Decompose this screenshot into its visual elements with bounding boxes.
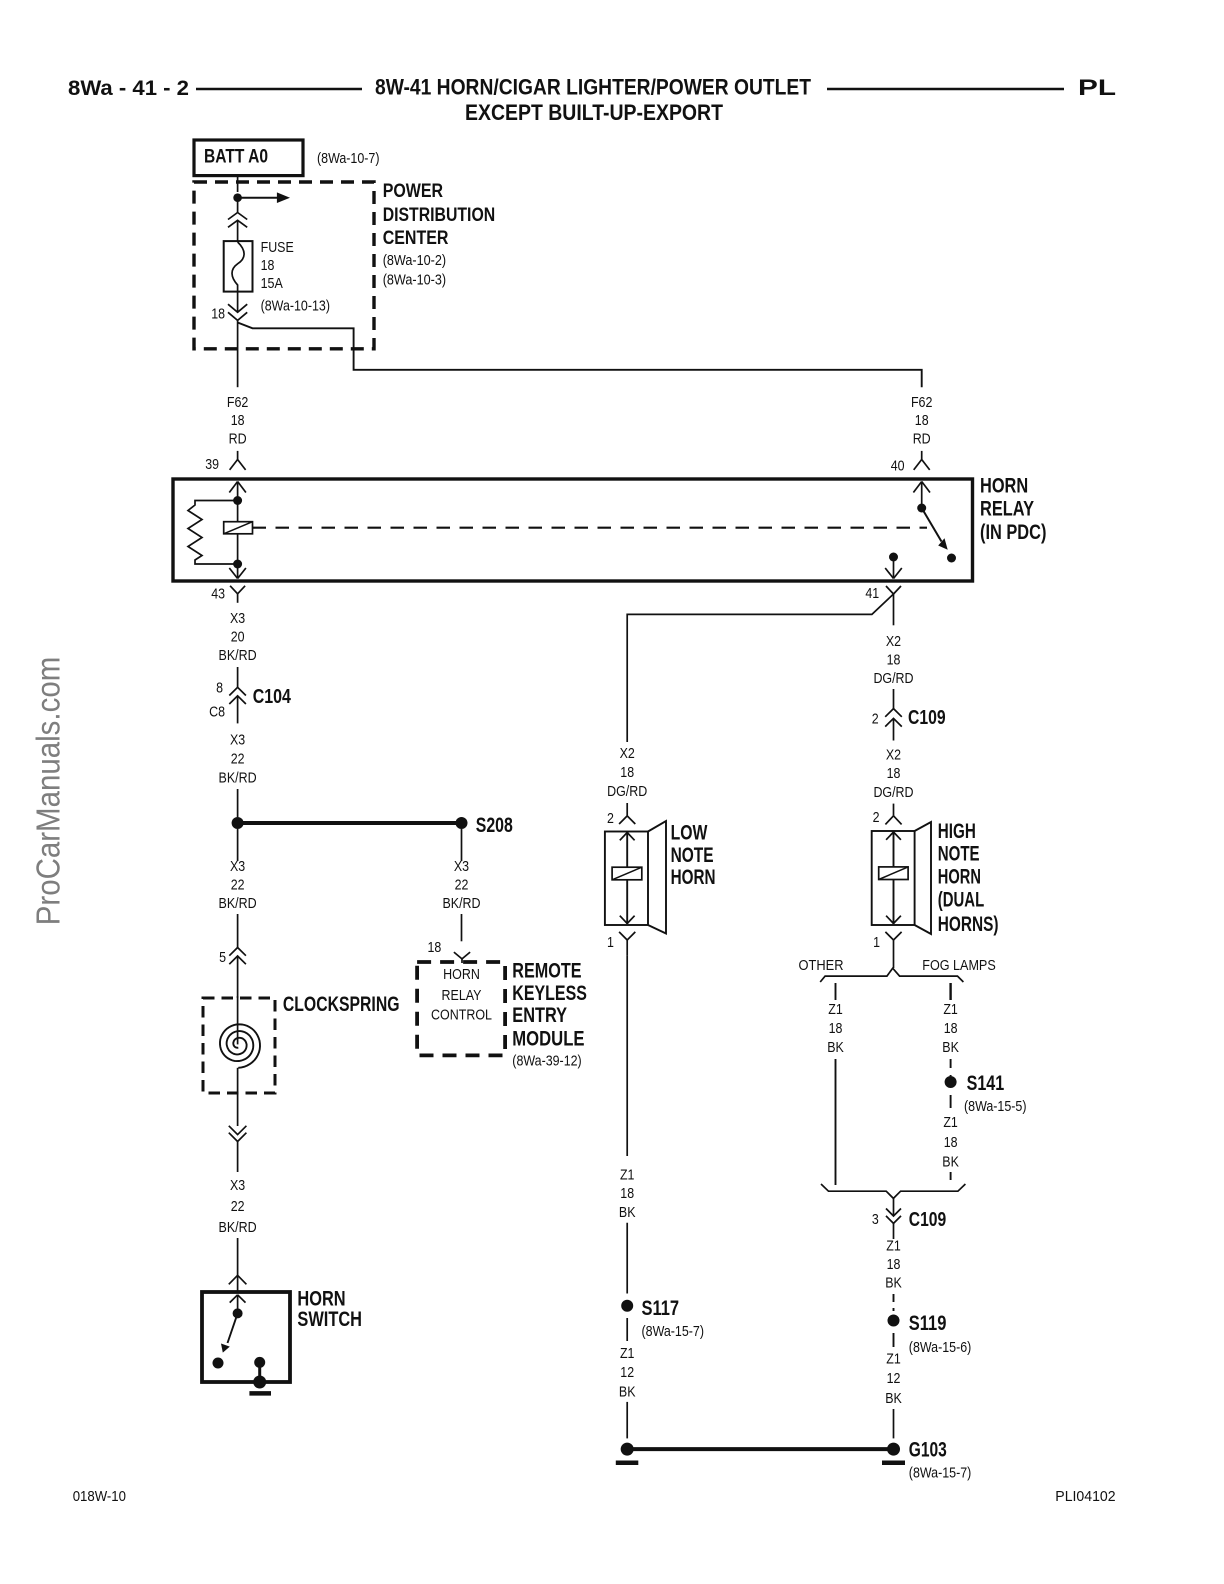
relay NO contact junction bbox=[889, 553, 898, 562]
svg-text:HORNS): HORNS) bbox=[938, 913, 999, 936]
wire label X3 22 BK/RD (RKE branch) bbox=[442, 858, 480, 912]
remote keyless entry module dashed box bbox=[417, 962, 505, 1055]
clockspring dashed box bbox=[203, 998, 275, 1093]
header page number bbox=[68, 77, 189, 100]
svg-text:(8Wa-15-5): (8Wa-15-5) bbox=[964, 1098, 1027, 1115]
relay actuation dashed link bbox=[253, 527, 928, 529]
svg-text:12: 12 bbox=[887, 1370, 901, 1387]
pin 1 label (low horn) bbox=[607, 934, 614, 951]
wire label X3 22 BK/RD (to clockspring) bbox=[219, 858, 257, 912]
horn relay label bbox=[980, 475, 1046, 545]
splice label S141 bbox=[964, 1072, 1027, 1115]
svg-text:REMOTE: REMOTE bbox=[512, 959, 581, 982]
connector chevron into fuse bbox=[228, 201, 247, 242]
svg-text:RD: RD bbox=[229, 431, 247, 448]
junction S208 bbox=[456, 817, 468, 829]
svg-text:(8Wa-10-7): (8Wa-10-7) bbox=[317, 150, 380, 167]
svg-text:FUSE: FUSE bbox=[261, 239, 294, 256]
connector label C109 (pin 2) bbox=[908, 707, 946, 729]
connector 43 out of PDC bbox=[230, 586, 245, 603]
svg-text:F62: F62 bbox=[227, 394, 249, 411]
horn switch terminal arrow bbox=[230, 1295, 246, 1309]
wire label X3 22 BK/RD (horn switch) bbox=[219, 1177, 257, 1236]
svg-text:BK: BK bbox=[885, 1390, 902, 1407]
battery feed box BATT A0 bbox=[194, 140, 303, 176]
ground label G103 bbox=[909, 1439, 972, 1482]
high note horn label bbox=[938, 820, 999, 936]
ground junction (S117 side) bbox=[621, 1443, 634, 1456]
svg-text:S119: S119 bbox=[909, 1312, 947, 1335]
wire to connector C109 pin 2 bbox=[893, 689, 895, 709]
svg-text:POWER: POWER bbox=[383, 181, 444, 202]
svg-text:S208: S208 bbox=[476, 814, 513, 837]
ground bus wire to G103 bbox=[627, 1447, 893, 1451]
svg-text:43: 43 bbox=[211, 586, 225, 603]
svg-text:DG/RD: DG/RD bbox=[607, 783, 647, 800]
svg-text:18: 18 bbox=[829, 1020, 843, 1037]
svg-text:C109: C109 bbox=[909, 1209, 946, 1231]
svg-text:HORN: HORN bbox=[938, 866, 981, 889]
pin 43 label bbox=[211, 586, 225, 603]
wire label Z1 18 BK (fog branch) bbox=[942, 1001, 959, 1056]
svg-text:LOW: LOW bbox=[671, 821, 708, 844]
wire below S119 bbox=[893, 1333, 895, 1347]
connector C109 pin 2 bbox=[885, 709, 902, 741]
wire S208 to clockspring connector bbox=[237, 829, 239, 948]
ground bar below horn switch bbox=[249, 1391, 271, 1396]
wire fuse output to relay pin 40 (F62 right run) bbox=[238, 323, 922, 388]
horn switch common junction bbox=[233, 1308, 243, 1318]
watermark ProCarManuals.com bbox=[31, 657, 68, 926]
svg-text:2: 2 bbox=[872, 710, 879, 727]
wire below S141 bbox=[950, 1095, 952, 1108]
svg-text:18: 18 bbox=[915, 412, 929, 429]
svg-text:Z1: Z1 bbox=[886, 1238, 901, 1255]
relay coil top junction bbox=[233, 496, 242, 505]
svg-text:18: 18 bbox=[887, 652, 901, 669]
pin 18 label (RKE) bbox=[428, 939, 442, 956]
connector label C109 (pin 3) bbox=[909, 1209, 946, 1231]
svg-text:DG/RD: DG/RD bbox=[873, 784, 913, 801]
svg-text:RD: RD bbox=[913, 431, 931, 448]
footer drawing code bbox=[1055, 1488, 1115, 1505]
title line 2 bbox=[465, 100, 723, 125]
pin 2 label (low horn) bbox=[607, 810, 614, 827]
svg-text:18: 18 bbox=[428, 939, 442, 956]
svg-text:BK/RD: BK/RD bbox=[219, 769, 257, 786]
svg-text:FOG LAMPS: FOG LAMPS bbox=[922, 957, 996, 974]
svg-text:DISTRIBUTION: DISTRIBUTION bbox=[383, 205, 496, 226]
svg-text:18: 18 bbox=[231, 412, 245, 429]
high note horn speaker flare bbox=[915, 822, 931, 934]
wire label Z1 18 BK (S117) bbox=[619, 1167, 636, 1221]
svg-text:15A: 15A bbox=[261, 275, 283, 292]
dashed wire fog branch to S141 bbox=[950, 1059, 952, 1076]
svg-text:41: 41 bbox=[865, 585, 879, 602]
branch label OTHER bbox=[799, 957, 844, 974]
svg-text:X2: X2 bbox=[886, 633, 901, 650]
low note horn box bbox=[605, 832, 648, 926]
pin 3 label bbox=[872, 1211, 879, 1228]
svg-text:2: 2 bbox=[873, 809, 880, 826]
svg-text:22: 22 bbox=[231, 1198, 245, 1215]
svg-text:BK/RD: BK/RD bbox=[219, 1219, 257, 1236]
svg-text:18: 18 bbox=[944, 1134, 958, 1151]
svg-text:HIGH: HIGH bbox=[938, 820, 976, 843]
svg-text:S141: S141 bbox=[967, 1072, 1005, 1095]
svg-text:BK/RD: BK/RD bbox=[442, 895, 480, 912]
splice S141 bbox=[945, 1076, 957, 1088]
svg-text:018W-10: 018W-10 bbox=[73, 1488, 126, 1505]
svg-text:SWITCH: SWITCH bbox=[297, 1308, 362, 1331]
svg-text:BK: BK bbox=[885, 1275, 902, 1292]
connector 41 out of PDC bbox=[886, 586, 901, 625]
wire label X2 18 DG/RD (lower right) bbox=[873, 746, 913, 801]
connector 39 into PDC relay bbox=[230, 451, 246, 470]
wire fog-branch stub bbox=[949, 983, 951, 1000]
power distribution center label bbox=[383, 181, 496, 288]
wire S119 to ground G103 bbox=[893, 1409, 895, 1438]
wire relay pin 41 to low note horn bbox=[627, 594, 893, 742]
relay coil suppression resistor bbox=[188, 501, 238, 565]
connector 1 out of low note horn bbox=[619, 932, 635, 955]
svg-text:CLOCKSPRING: CLOCKSPRING bbox=[283, 993, 400, 1016]
svg-text:2: 2 bbox=[607, 810, 614, 827]
connector 5 into clockspring bbox=[229, 948, 246, 999]
svg-text:X2: X2 bbox=[620, 745, 635, 762]
fuse 15A bbox=[224, 241, 253, 292]
connector C109 pin 3 bbox=[886, 1198, 901, 1239]
wire battery to splice bbox=[237, 176, 239, 192]
connector chevron at horn switch bbox=[229, 1275, 247, 1292]
svg-text:18: 18 bbox=[620, 1185, 634, 1202]
horn switch ground contact bbox=[254, 1357, 265, 1368]
dashed wire S141 to merge bbox=[950, 1172, 952, 1185]
svg-text:HORN: HORN bbox=[671, 866, 716, 889]
svg-text:ProCarManuals.com: ProCarManuals.com bbox=[31, 657, 68, 926]
wire S208 to RKE module bbox=[461, 829, 463, 941]
svg-text:20: 20 bbox=[231, 629, 245, 646]
splice S208 bus wire bbox=[238, 821, 462, 825]
svg-text:BK: BK bbox=[619, 1204, 636, 1221]
svg-text:KEYLESS: KEYLESS bbox=[512, 982, 587, 1005]
svg-text:BK: BK bbox=[619, 1384, 636, 1401]
svg-text:18: 18 bbox=[261, 257, 275, 274]
pin 41 label bbox=[865, 585, 879, 602]
splice label S117 bbox=[642, 1297, 705, 1340]
relay switch blade bbox=[922, 508, 948, 550]
connector 2 into high note horn bbox=[885, 804, 901, 825]
wire to horn switch connector bbox=[237, 1238, 239, 1275]
svg-text:G103: G103 bbox=[909, 1439, 947, 1462]
relay coil bbox=[224, 501, 253, 561]
svg-text:(8Wa-39-12): (8Wa-39-12) bbox=[512, 1052, 581, 1069]
connector 40 into PDC relay bbox=[914, 451, 930, 470]
svg-text:ENTRY: ENTRY bbox=[512, 1004, 567, 1027]
connector 18 into RKE module bbox=[454, 952, 470, 963]
wire connector 43 to C104 bbox=[237, 667, 239, 687]
pin 2 label (C109) bbox=[872, 710, 879, 727]
svg-text:CONTROL: CONTROL bbox=[431, 1007, 492, 1024]
svg-text:C109: C109 bbox=[908, 707, 946, 729]
junction S208 left bbox=[232, 817, 244, 829]
low note horn speaker flare bbox=[648, 821, 666, 934]
pin 39 label bbox=[205, 456, 219, 473]
relay pin 40 terminal arrow bbox=[913, 482, 930, 505]
footer sheet number bbox=[73, 1488, 126, 1505]
relay pin 39 terminal arrow bbox=[229, 482, 246, 501]
svg-text:(8Wa-15-7): (8Wa-15-7) bbox=[642, 1323, 705, 1340]
splice label S208 bbox=[476, 814, 513, 837]
horn switch label bbox=[297, 1288, 362, 1332]
fuse value labels bbox=[261, 239, 330, 315]
svg-text:5: 5 bbox=[219, 949, 226, 966]
svg-text:(8Wa-15-7): (8Wa-15-7) bbox=[909, 1465, 972, 1482]
clockspring coil spiral bbox=[220, 1024, 260, 1068]
svg-text:X2: X2 bbox=[886, 746, 901, 763]
svg-text:RELAY: RELAY bbox=[980, 498, 1034, 521]
wire S117 to ground G103 bbox=[626, 1402, 628, 1439]
pin 1 label (high horn) bbox=[873, 934, 880, 951]
wire label X2 18 DG/RD (upper right) bbox=[873, 633, 913, 687]
ground bar (S117 side) bbox=[616, 1460, 639, 1465]
wire label Z1 12 BK (S117) bbox=[619, 1345, 636, 1401]
svg-text:(8Wa-10-3): (8Wa-10-3) bbox=[383, 272, 446, 289]
svg-text:18: 18 bbox=[887, 765, 901, 782]
branch label FOG LAMPS bbox=[922, 957, 996, 974]
svg-text:Z1: Z1 bbox=[886, 1351, 901, 1368]
clockspring label bbox=[283, 993, 400, 1016]
svg-text:8Wa - 41 - 2: 8Wa - 41 - 2 bbox=[68, 77, 189, 100]
horn switch moving contact bbox=[213, 1358, 224, 1369]
wire contact to case ground bbox=[258, 1362, 261, 1382]
svg-text:8W-41 HORN/CIGAR LIGHTER/POWER: 8W-41 HORN/CIGAR LIGHTER/POWER OUTLET bbox=[375, 75, 811, 100]
svg-text:18: 18 bbox=[887, 1256, 901, 1273]
connector label C104 bbox=[253, 686, 292, 708]
svg-text:BK/RD: BK/RD bbox=[219, 895, 257, 912]
svg-text:Z1: Z1 bbox=[620, 1167, 635, 1184]
svg-text:BK: BK bbox=[827, 1039, 844, 1056]
svg-text:12: 12 bbox=[620, 1364, 634, 1381]
svg-text:Z1: Z1 bbox=[620, 1345, 635, 1362]
svg-text:NOTE: NOTE bbox=[938, 843, 980, 866]
svg-text:X3: X3 bbox=[230, 610, 245, 627]
fog lamps merge brace bbox=[821, 1184, 965, 1198]
remote keyless entry module label bbox=[512, 959, 587, 1069]
svg-text:BK/RD: BK/RD bbox=[219, 647, 257, 664]
svg-text:C104: C104 bbox=[253, 686, 292, 708]
svg-text:Z1: Z1 bbox=[943, 1001, 958, 1018]
wire into clockspring bbox=[237, 996, 239, 1044]
connector 2 into low note horn bbox=[619, 803, 635, 824]
svg-text:C8: C8 bbox=[209, 704, 225, 721]
svg-text:1: 1 bbox=[607, 934, 614, 951]
svg-text:Z1: Z1 bbox=[943, 1114, 958, 1131]
high note horn coil and arrows bbox=[879, 831, 908, 924]
svg-text:X3: X3 bbox=[230, 1177, 245, 1194]
wire label Z1 18 BK (below C109) bbox=[885, 1238, 902, 1292]
svg-text:(8Wa-15-6): (8Wa-15-6) bbox=[909, 1339, 972, 1356]
svg-text:1: 1 bbox=[873, 934, 880, 951]
svg-text:(8Wa-10-2): (8Wa-10-2) bbox=[383, 252, 446, 269]
svg-text:RELAY: RELAY bbox=[442, 987, 482, 1004]
relay coil bottom junction bbox=[233, 560, 242, 569]
svg-text:Z1: Z1 bbox=[828, 1001, 843, 1018]
svg-text:BK: BK bbox=[942, 1039, 959, 1056]
svg-text:NOTE: NOTE bbox=[671, 844, 714, 867]
bus arrow to other circuits bbox=[238, 192, 290, 203]
connector chevrons below clockspring bbox=[229, 1126, 247, 1172]
svg-text:18: 18 bbox=[211, 305, 225, 322]
relay switch blade contact dot bbox=[947, 554, 956, 563]
wire low note horn to splice S117 bbox=[626, 955, 628, 1156]
dashed wire to S119 bbox=[893, 1294, 895, 1311]
horn switch blade with arrow bbox=[221, 1313, 238, 1352]
wire label F62 18 RD (left) bbox=[227, 394, 249, 448]
svg-text:3: 3 bbox=[872, 1211, 879, 1228]
low note horn coil and arrows bbox=[612, 832, 642, 925]
horn switch box bbox=[202, 1292, 290, 1382]
svg-text:22: 22 bbox=[455, 877, 469, 894]
svg-text:BK: BK bbox=[942, 1153, 959, 1170]
svg-text:DG/RD: DG/RD bbox=[873, 670, 913, 687]
svg-text:HORN: HORN bbox=[980, 475, 1028, 498]
pin C8 label bbox=[209, 704, 225, 721]
pin 40 label bbox=[891, 458, 905, 475]
pin 5 label bbox=[219, 949, 226, 966]
junction battery splice bbox=[233, 193, 242, 202]
ground junction at switch case bbox=[253, 1376, 266, 1389]
relay pin 41 terminal arrow bbox=[885, 557, 902, 579]
svg-text:18: 18 bbox=[944, 1020, 958, 1037]
horn relay control label bbox=[431, 966, 492, 1023]
pin 8 label bbox=[216, 680, 223, 697]
relay switch common junction bbox=[917, 504, 926, 513]
wire clockspring to chevron connector bbox=[237, 1068, 239, 1126]
wire label X2 18 DG/RD (low horn) bbox=[607, 745, 647, 800]
wire other-branch stub bbox=[835, 983, 837, 1000]
ground junction G103 bbox=[887, 1443, 900, 1456]
svg-text:8: 8 bbox=[216, 680, 223, 697]
pin 2 label (high horn) bbox=[873, 809, 880, 826]
svg-text:MODULE: MODULE bbox=[512, 1028, 584, 1051]
header rule right bbox=[827, 88, 1064, 90]
wire C104 to splice S208 bbox=[237, 789, 239, 817]
svg-text:40: 40 bbox=[891, 458, 905, 475]
svg-text:S117: S117 bbox=[642, 1297, 680, 1320]
wire below S117 bbox=[626, 1318, 628, 1341]
svg-text:BATT A0: BATT A0 bbox=[204, 147, 268, 168]
connector chevron below fuse bbox=[228, 292, 247, 321]
splice S119 bbox=[888, 1315, 900, 1327]
horn relay box bbox=[173, 479, 973, 581]
svg-text:PLI04102: PLI04102 bbox=[1055, 1488, 1115, 1505]
svg-text:EXCEPT BUILT-UP-EXPORT: EXCEPT BUILT-UP-EXPORT bbox=[465, 100, 723, 125]
wire label X3 20 BK/RD bbox=[219, 610, 257, 664]
wire label Z1 18 BK (below S141) bbox=[942, 1114, 959, 1171]
svg-text:X3: X3 bbox=[230, 732, 245, 749]
high note horn box bbox=[872, 831, 915, 925]
connector 1 out of high note horn bbox=[885, 932, 901, 968]
header rule left bbox=[196, 88, 362, 90]
note (8Wa-10-7) bbox=[317, 150, 380, 167]
pin 18 label bbox=[211, 305, 225, 322]
title line 1 bbox=[375, 75, 811, 100]
wire other branch to merge bbox=[835, 1059, 837, 1185]
connector C104 bbox=[229, 687, 246, 723]
svg-text:HORN: HORN bbox=[443, 966, 480, 983]
svg-text:(8Wa-10-13): (8Wa-10-13) bbox=[261, 298, 330, 315]
wire label Z1 18 BK (other branch) bbox=[827, 1001, 844, 1056]
fog lamps split brace bbox=[820, 968, 963, 982]
header code PL bbox=[1078, 75, 1116, 100]
wire label F62 18 RD (right) bbox=[911, 394, 933, 448]
wire to splice S117 bbox=[626, 1223, 628, 1294]
svg-text:CENTER: CENTER bbox=[383, 228, 449, 249]
svg-text:F62: F62 bbox=[911, 394, 933, 411]
svg-text:OTHER: OTHER bbox=[799, 957, 844, 974]
svg-text:(DUAL: (DUAL bbox=[938, 889, 985, 912]
splice label S119 bbox=[909, 1312, 972, 1356]
wire fuse output to relay pin 39 (F62 left drop) bbox=[237, 320, 239, 387]
ground bar G103 bbox=[882, 1460, 905, 1465]
wire label X3 22 BK/RD (above S208) bbox=[219, 732, 257, 787]
wire label Z1 12 BK (S119) bbox=[885, 1351, 902, 1407]
svg-text:18: 18 bbox=[620, 764, 634, 781]
svg-text:(IN PDC): (IN PDC) bbox=[980, 521, 1046, 544]
svg-text:22: 22 bbox=[231, 877, 245, 894]
low note horn label bbox=[671, 821, 716, 889]
splice S117 bbox=[621, 1300, 633, 1312]
svg-text:PL: PL bbox=[1078, 75, 1116, 100]
relay pin 43 terminal arrow bbox=[229, 564, 246, 579]
svg-text:22: 22 bbox=[231, 750, 245, 767]
svg-text:39: 39 bbox=[205, 456, 219, 473]
power distribution center dashed box bbox=[194, 182, 374, 349]
